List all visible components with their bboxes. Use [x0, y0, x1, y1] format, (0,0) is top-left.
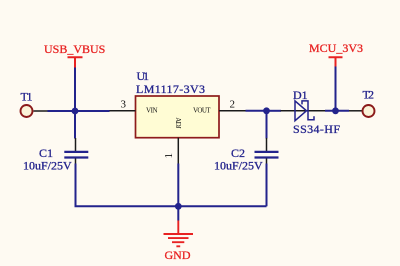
- wire diode D1 to node C: [325, 110, 349, 112]
- wire node C up to MCU_3V3 flag: [335, 67, 337, 111]
- wire C1 down and across bottom to C2: [76, 164, 267, 207]
- wire U1 pin 1 down to GND node: [177, 164, 179, 207]
- svg-text:LM1117-3V3: LM1117-3V3: [136, 82, 205, 96]
- wire node B down to C2: [266, 111, 268, 139]
- svg-text:MCU_3V3: MCU_3V3: [309, 41, 363, 55]
- svg-text:D1: D1: [293, 88, 308, 102]
- svg-text:VIN: VIN: [146, 106, 158, 114]
- wire C2 down to bottom wire: [266, 164, 268, 207]
- regulator U1 LM1117-3V3: [136, 69, 220, 138]
- svg-text:T1: T1: [21, 90, 33, 104]
- svg-text:1: 1: [163, 153, 175, 159]
- wire node A down to C1: [74, 111, 76, 139]
- svg-text:10uF/25V: 10uF/25V: [23, 159, 72, 173]
- terminal T1: [21, 90, 48, 118]
- wire U1 pin 2 to node B: [246, 110, 267, 112]
- svg-text:3: 3: [121, 99, 127, 111]
- wire node B to diode D1: [267, 110, 282, 112]
- svg-text:2: 2: [230, 99, 236, 111]
- svg-text:GND: GND: [165, 248, 191, 262]
- svg-text:SS34-HF: SS34-HF: [293, 122, 340, 136]
- capacitor C1: [23, 138, 88, 173]
- node GND junction: [175, 203, 182, 210]
- wire GND node down to ground flag: [177, 206, 179, 220]
- node B junction: [263, 107, 270, 114]
- ground GND: [164, 221, 194, 263]
- U1 pin 1 ADJ: [163, 117, 182, 163]
- svg-text:U1: U1: [137, 69, 150, 83]
- node C junction: [332, 107, 339, 114]
- power flag USB_VBUS: [44, 42, 105, 68]
- node A junction: [72, 108, 79, 115]
- power flag MCU_3V3: [309, 41, 363, 67]
- terminal T2: [349, 88, 375, 118]
- U1 pin 3 VIN: [110, 99, 158, 115]
- svg-text:10uF/25V: 10uF/25V: [214, 159, 263, 173]
- svg-text:VOUT: VOUT: [193, 106, 211, 114]
- svg-text:ADJ: ADJ: [174, 117, 182, 129]
- capacitor C2: [214, 138, 279, 173]
- U1 pin 2 VOUT: [193, 99, 246, 115]
- svg-text:T2: T2: [363, 88, 375, 102]
- diode D1 SS34-HF: [281, 88, 341, 136]
- wire T1 to U1 pin 3: [48, 110, 110, 112]
- svg-text:USB_VBUS: USB_VBUS: [44, 42, 105, 56]
- wire USB_VBUS flag to node A: [74, 68, 76, 112]
